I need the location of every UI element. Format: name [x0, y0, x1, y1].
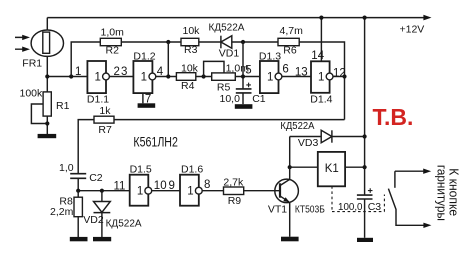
- svg-text:5: 5: [245, 65, 251, 77]
- svg-text:1: 1: [318, 71, 324, 83]
- svg-text:R9: R9: [228, 195, 242, 207]
- svg-text:гарнитуры: гарнитуры: [435, 165, 450, 221]
- svg-text:R7: R7: [98, 124, 112, 136]
- svg-text:10k: 10k: [183, 25, 201, 37]
- svg-text:FR1: FR1: [22, 58, 42, 70]
- svg-text:100k: 100k: [20, 88, 44, 100]
- svg-text:Т.В.: Т.В.: [373, 104, 414, 130]
- svg-text:VD2: VD2: [83, 214, 104, 226]
- svg-text:1: 1: [95, 71, 101, 83]
- svg-text:1,0: 1,0: [59, 162, 74, 174]
- svg-text:D1.3: D1.3: [259, 51, 281, 63]
- svg-text:K1: K1: [325, 163, 339, 175]
- svg-text:КД522А: КД522А: [106, 219, 142, 230]
- svg-text:1: 1: [141, 71, 147, 83]
- svg-text:К561ЛН2: К561ЛН2: [133, 133, 178, 149]
- svg-text:D1.2: D1.2: [133, 50, 155, 62]
- svg-text:VD3: VD3: [298, 137, 319, 149]
- svg-text:R5: R5: [217, 82, 231, 94]
- svg-text:VT1: VT1: [268, 203, 287, 215]
- svg-text:D1.4: D1.4: [310, 93, 332, 105]
- svg-text:R1: R1: [56, 100, 70, 112]
- svg-text:1,0m: 1,0m: [101, 26, 125, 38]
- svg-text:R3: R3: [184, 44, 198, 56]
- svg-text:13: 13: [295, 67, 308, 79]
- svg-text:КД522А: КД522А: [209, 22, 245, 33]
- svg-text:2: 2: [114, 66, 120, 78]
- svg-text:14: 14: [311, 50, 324, 62]
- svg-text:12: 12: [333, 68, 346, 80]
- svg-text:7: 7: [145, 93, 151, 105]
- svg-text:2,7k: 2,7k: [223, 176, 244, 188]
- svg-text:4: 4: [157, 66, 164, 78]
- svg-text:1: 1: [75, 66, 81, 78]
- svg-text:10k: 10k: [181, 62, 199, 74]
- svg-text:11: 11: [114, 181, 126, 193]
- svg-text:1: 1: [267, 71, 273, 83]
- svg-text:1: 1: [187, 186, 193, 198]
- svg-text:1: 1: [137, 186, 143, 198]
- svg-text:КТ503Б: КТ503Б: [295, 203, 325, 215]
- svg-text:10: 10: [154, 180, 167, 192]
- svg-text:С1: С1: [252, 93, 266, 105]
- svg-text:VD1: VD1: [219, 48, 240, 60]
- svg-text:1k: 1k: [99, 105, 111, 117]
- svg-text:4,7m: 4,7m: [280, 25, 304, 37]
- svg-text:8: 8: [204, 179, 210, 191]
- svg-text:6: 6: [282, 64, 288, 76]
- svg-text:3: 3: [121, 66, 127, 78]
- svg-text:R2: R2: [106, 45, 120, 57]
- svg-text:D1.1: D1.1: [87, 94, 109, 106]
- svg-text:D1.6: D1.6: [181, 164, 203, 176]
- svg-text:R4: R4: [181, 80, 195, 92]
- svg-text:КД522А: КД522А: [280, 121, 314, 132]
- svg-text:D1.5: D1.5: [130, 164, 152, 176]
- svg-text:2,2m: 2,2m: [50, 206, 74, 218]
- svg-text:+12V: +12V: [400, 24, 425, 36]
- svg-text:C2: C2: [89, 172, 103, 184]
- svg-text:10,0: 10,0: [220, 93, 241, 105]
- svg-text:R6: R6: [283, 44, 297, 56]
- svg-text:9: 9: [169, 180, 175, 192]
